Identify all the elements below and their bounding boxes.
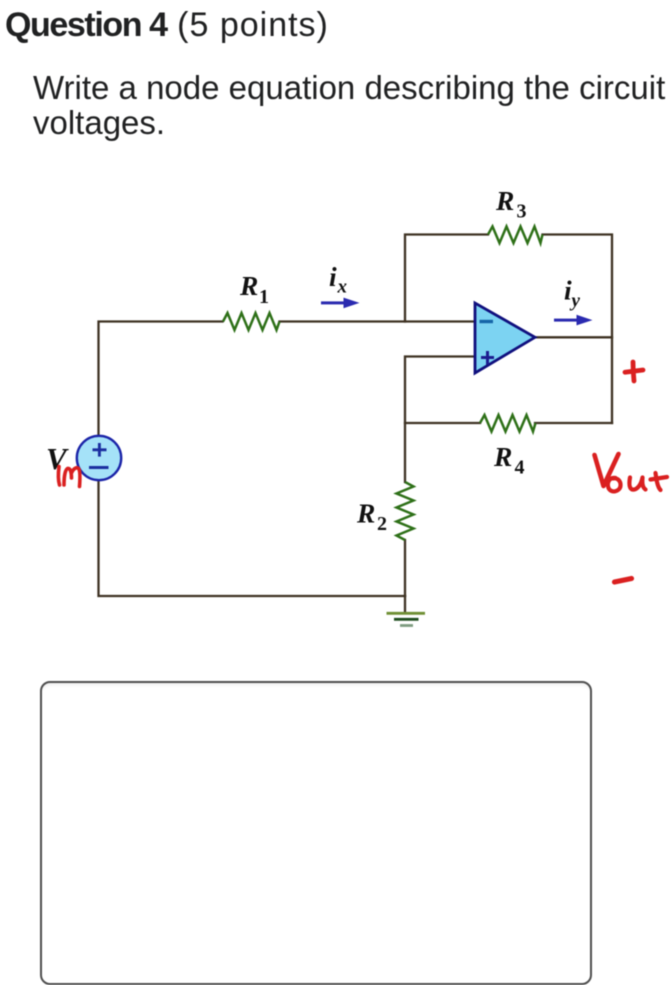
svg-text:x: x [337,277,348,298]
svg-text:R: R [495,185,514,216]
svg-text:2: 2 [377,513,387,535]
svg-text:R: R [239,270,258,301]
svg-text:3: 3 [517,201,527,223]
svg-text:i: i [329,261,337,292]
svg-text:R: R [356,498,375,529]
svg-text:1: 1 [259,286,269,308]
svg-text:y: y [570,291,581,312]
svg-text:4: 4 [515,457,525,479]
svg-text:R: R [493,441,512,472]
